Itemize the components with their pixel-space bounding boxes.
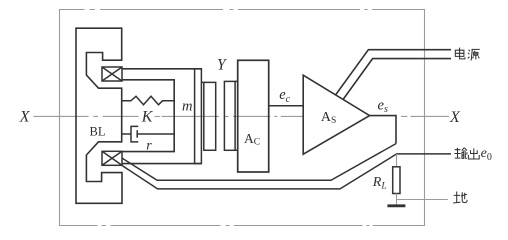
svg-text:BL: BL bbox=[90, 124, 106, 138]
svg-text:ec: ec bbox=[279, 87, 290, 105]
label 输出e0 (output) glyph strokes bbox=[455, 148, 480, 159]
wire ec bbox=[269, 105, 304, 107]
label 地 (ground) glyph strokes bbox=[453, 192, 467, 204]
coil W bottom (X-box) bbox=[102, 151, 122, 165]
svg-text:r: r bbox=[146, 138, 152, 153]
svg-text:AC: AC bbox=[244, 131, 260, 148]
ground wire to 地 bbox=[397, 199, 448, 201]
wire es output bbox=[370, 116, 396, 144]
magnet yoke bbox=[76, 28, 122, 203]
coil rod bottom outer bbox=[122, 163, 201, 165]
svg-text:Y: Y bbox=[217, 56, 227, 73]
enclosure border left bbox=[59, 9, 61, 226]
centerline X-X (dash-dot) bbox=[33, 115, 449, 117]
block AC bbox=[238, 60, 269, 172]
coil bobbin bracket (inner rods and vertical) bbox=[122, 80, 174, 152]
coil W top (X-box) bbox=[102, 67, 122, 81]
damper r piston bbox=[122, 130, 174, 138]
power wire 1 bbox=[336, 50, 452, 95]
enclosure border top (dash-dot case outline) bbox=[59, 9, 425, 11]
svg-text:X: X bbox=[19, 108, 31, 125]
damper r cylinder bbox=[131, 126, 138, 141]
svg-text:RL: RL bbox=[372, 175, 387, 192]
spring K bbox=[122, 96, 174, 105]
enclosure border right bbox=[424, 9, 426, 226]
moving plate P2 bbox=[201, 82, 215, 150]
svg-text:K: K bbox=[141, 109, 154, 126]
svg-text:m: m bbox=[182, 99, 192, 115]
svg-text:AS: AS bbox=[321, 110, 336, 126]
svg-text:e0: e0 bbox=[481, 146, 492, 163]
ground symbol bbox=[387, 204, 405, 207]
coil feedback wire upper bbox=[122, 144, 396, 181]
op-amp AS triangle bbox=[303, 75, 369, 154]
enclosure border bottom (dash-dot case outline) bbox=[59, 225, 425, 227]
coil rod top outer bbox=[122, 68, 201, 70]
resistor RL bbox=[393, 167, 400, 194]
fixed plate P3 bbox=[224, 81, 235, 150]
wire RL to ground bbox=[396, 194, 398, 206]
svg-text:X: X bbox=[449, 109, 461, 126]
moving plate P1 bbox=[195, 69, 202, 164]
label 电源 (power) glyph strokes bbox=[455, 48, 480, 61]
wire to RL bbox=[396, 154, 398, 167]
power wire 2 bbox=[343, 59, 451, 100]
svg-text:es: es bbox=[378, 97, 388, 115]
coil feedback wire lower (to output) bbox=[122, 154, 451, 189]
